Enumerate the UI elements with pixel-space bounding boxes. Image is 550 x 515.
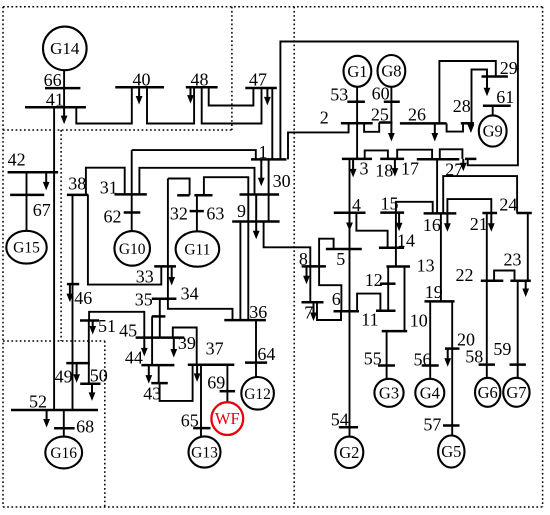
load arrow bus 39: [173, 338, 175, 351]
wire 41-52: [53, 107, 55, 410]
bus 46 bar: [67, 283, 79, 286]
bus 49 bar: [66, 362, 90, 365]
bus 11 bar: [376, 309, 396, 312]
bus 28 bar: [461, 122, 474, 125]
bus 31 bar: [115, 193, 147, 196]
wire 43-37: [160, 365, 193, 401]
svg-text:49: 49: [55, 367, 73, 387]
bus 21 bar: [482, 212, 497, 215]
bus 65 bar: [193, 427, 210, 430]
bus 55 bar: [378, 364, 395, 367]
wire G1-53-2-3: [356, 87, 358, 159]
svg-text:13: 13: [417, 256, 435, 276]
svg-text:G9: G9: [483, 122, 503, 141]
generator G12: [241, 377, 274, 410]
wire 51-50: [88, 321, 90, 384]
bus 52 bar: [11, 409, 98, 412]
wire 37-69-WF: [226, 365, 228, 403]
wire 16-21: [447, 199, 491, 213]
wire 2-25: [364, 123, 379, 132]
svg-text:62: 62: [104, 207, 122, 227]
area G16 boundary horizontal: [3, 340, 105, 342]
load arrow bus 8: [306, 266, 308, 277]
area G16 boundary vertical: [104, 341, 106, 507]
bus 29 bar: [482, 75, 508, 78]
svg-text:38: 38: [68, 174, 86, 194]
wire G8-60-25: [390, 87, 392, 123]
wire 48-47 upper: [209, 87, 254, 105]
svg-text:1: 1: [259, 142, 268, 162]
wire 9-36: [239, 222, 241, 321]
svg-text:14: 14: [397, 231, 415, 251]
wire 44-43: [158, 365, 160, 383]
bus 56 bar: [422, 364, 439, 367]
wire 13-10: [404, 267, 406, 332]
load arrow bus 44: [148, 365, 150, 377]
load arrow bus 47: [266, 88, 268, 98]
generator G4: [415, 379, 444, 407]
bus 67 bar: [10, 194, 44, 197]
bus 63 transformer tick: [190, 210, 204, 213]
svg-text:24: 24: [499, 195, 517, 215]
wire 27 load jog: [440, 149, 463, 159]
svg-text:31: 31: [100, 178, 118, 198]
wire 19-20-57-G5: [451, 301, 453, 435]
svg-text:36: 36: [249, 302, 267, 322]
bus 35-34 bar: [152, 298, 177, 301]
svg-text:G14: G14: [50, 39, 80, 58]
wire 48-47 lower: [202, 87, 262, 123]
svg-text:41: 41: [46, 90, 64, 110]
wire 23-59-G7: [517, 281, 519, 378]
wire 47-1: [271, 88, 273, 159]
svg-text:59: 59: [493, 339, 511, 359]
svg-text:17: 17: [401, 159, 419, 179]
bus 53 bar: [347, 101, 365, 104]
bus 63 bar: [194, 194, 212, 197]
bus 10 bar: [382, 330, 408, 333]
bus 18 bar: [380, 158, 404, 161]
svg-text:64: 64: [257, 344, 275, 364]
bus 50 bar: [80, 383, 100, 386]
area separator vertical: [293, 7, 295, 507]
svg-text:15: 15: [381, 194, 399, 214]
load arrow bus 30: [255, 195, 257, 233]
svg-text:28: 28: [453, 96, 471, 116]
wire 63-G11: [196, 195, 198, 231]
bus 45-39 bar: [136, 336, 185, 339]
bus 26 bar: [400, 122, 447, 125]
wire 26-28: [447, 123, 463, 131]
svg-text:67: 67: [33, 200, 51, 220]
svg-text:55: 55: [364, 349, 382, 369]
svg-text:45: 45: [119, 321, 137, 341]
load arrow bus 45: [143, 338, 145, 350]
svg-text:32: 32: [170, 204, 188, 224]
svg-text:8: 8: [299, 249, 308, 269]
wire 26-29: [439, 61, 495, 123]
bus 8 bar: [302, 265, 326, 268]
wire 37-65-G13: [200, 365, 202, 437]
svg-text:2: 2: [320, 108, 329, 128]
bus 15 bar: [380, 211, 404, 214]
svg-text:39: 39: [178, 333, 196, 353]
generator G7: [503, 378, 529, 407]
load arrow bus 21: [490, 213, 492, 225]
bus 41 bar: [25, 106, 86, 109]
bus 12 bar: [380, 282, 396, 285]
svg-text:69: 69: [207, 373, 225, 393]
svg-text:65: 65: [181, 411, 199, 431]
wire 31-1: [132, 150, 256, 159]
wire 22-23: [494, 271, 514, 281]
load arrow bus 29: [486, 77, 488, 90]
generator G5: [438, 435, 464, 467]
bus 2 bar: [341, 122, 373, 125]
svg-text:6: 6: [332, 289, 341, 309]
generator G8: [378, 55, 406, 87]
svg-text:25: 25: [371, 105, 389, 125]
bus 22 bar: [481, 279, 504, 282]
bus 17 bar: [417, 158, 460, 161]
svg-text:WF: WF: [215, 409, 240, 428]
wire 45-44: [151, 316, 153, 365]
bus 68 bar: [54, 427, 75, 430]
wire 13-12-11: [387, 267, 389, 311]
svg-text:46: 46: [74, 288, 92, 308]
bus 20 bar: [445, 347, 460, 350]
svg-text:G4: G4: [420, 383, 440, 402]
area G14 boundary vertical: [231, 7, 233, 130]
svg-text:30: 30: [273, 171, 291, 191]
generator G15: [6, 231, 46, 264]
svg-text:G10: G10: [119, 241, 146, 258]
load arrow bus 18: [394, 159, 396, 170]
load arrow bus 26: [434, 123, 436, 134]
generator G3: [374, 379, 403, 407]
svg-text:61: 61: [496, 87, 514, 107]
wire 19-56-G4: [429, 301, 431, 379]
svg-text:26: 26: [408, 105, 426, 125]
load arrow bus 28: [470, 123, 472, 126]
svg-text:44: 44: [125, 348, 143, 368]
wind farm WF: [211, 402, 243, 435]
load arrow bus 7: [313, 302, 315, 314]
wire 40-48: [147, 87, 194, 123]
wire 4-14: [356, 213, 387, 248]
wire 6-11: [357, 294, 380, 312]
svg-text:51: 51: [98, 316, 116, 336]
svg-text:22: 22: [456, 265, 474, 285]
wire 24-23: [527, 213, 529, 281]
wire 36-64-G12: [255, 320, 257, 377]
svg-text:42: 42: [8, 150, 26, 170]
load arrow bus 50: [91, 384, 93, 394]
bus 27 bar: [465, 158, 476, 161]
bus 54 bar: [339, 426, 358, 429]
svg-text:3: 3: [360, 159, 369, 179]
wire 35-45: [159, 299, 161, 338]
wire 21-22-58-G6: [486, 213, 488, 378]
bus 14 bar: [379, 246, 404, 249]
bus 19 bar: [425, 300, 455, 303]
svg-text:G3: G3: [379, 383, 399, 402]
svg-text:4: 4: [352, 195, 361, 215]
bus 30 bar: [240, 193, 280, 196]
svg-text:5: 5: [336, 249, 345, 269]
bus 62 bar: [124, 211, 141, 214]
wire 5-6: [319, 239, 341, 312]
generator G1: [344, 56, 372, 87]
svg-text:34: 34: [181, 284, 199, 304]
svg-text:G11: G11: [184, 242, 210, 259]
bus 1 bar: [251, 158, 287, 161]
wire 17-16: [436, 159, 438, 213]
generator G6: [475, 378, 500, 407]
wire 61-G9: [492, 106, 494, 116]
svg-text:52: 52: [29, 392, 47, 412]
wire 18-17: [397, 150, 432, 160]
load arrow bus 49: [76, 363, 78, 376]
wire 31-62-G10: [131, 150, 133, 230]
bus 61 bar: [483, 104, 511, 107]
area G15 boundary vertical: [60, 130, 62, 341]
bus 32 bar: [177, 194, 189, 197]
wire 16-19: [440, 213, 442, 301]
svg-text:43: 43: [143, 384, 161, 404]
svg-text:57: 57: [423, 415, 441, 435]
wire 32 link: [168, 179, 190, 196]
wire 38-31: [86, 168, 125, 195]
wire 1-2: [288, 123, 349, 159]
bus 44 bar: [141, 364, 174, 367]
wire 28-29: [472, 70, 488, 124]
wire 3-4-5-54-G2: [349, 159, 351, 437]
svg-text:G1: G1: [347, 62, 367, 81]
bus 25 bar: [379, 121, 392, 124]
svg-text:23: 23: [504, 250, 522, 270]
svg-text:35: 35: [135, 290, 153, 310]
load arrow bus 23: [525, 281, 527, 290]
wire 16-24: [443, 176, 517, 213]
bus 3 bar: [342, 158, 372, 161]
load arrow bus 27: [462, 159, 464, 164]
bus 16 bar: [424, 212, 457, 215]
generator G14: [43, 27, 87, 71]
svg-text:48: 48: [191, 70, 209, 90]
svg-text:G5: G5: [441, 442, 461, 461]
bus 47 bar: [245, 87, 276, 90]
wire 52-68-G16: [63, 410, 65, 437]
wire 39-37: [173, 328, 197, 365]
bus 6 bar: [334, 310, 360, 313]
bus 60 bar: [384, 101, 400, 104]
svg-text:19: 19: [425, 282, 443, 302]
svg-text:G15: G15: [13, 240, 40, 257]
svg-text:56: 56: [414, 350, 432, 370]
svg-text:10: 10: [410, 311, 428, 331]
svg-text:9: 9: [237, 201, 246, 221]
svg-text:40: 40: [133, 70, 151, 90]
bus 45 upper tick: [152, 315, 166, 318]
wire 3-18: [365, 150, 388, 159]
bus 40 bar: [115, 86, 164, 89]
wire 15-16: [396, 202, 433, 214]
load arrow bus 40: [138, 87, 140, 97]
load arrow bus 20: [447, 349, 449, 360]
border left: [2, 7, 4, 507]
wire 41-40: [76, 87, 132, 123]
load arrow bus 25: [390, 123, 392, 135]
wire 38-33: [88, 195, 161, 285]
load arrow bus 33: [171, 266, 173, 278]
load arrow bus 3: [352, 159, 354, 171]
svg-text:12: 12: [365, 270, 383, 290]
bus 42 bar: [8, 171, 59, 174]
load arrow bus 48: [190, 87, 192, 96]
wire 31-30: [139, 168, 254, 195]
bus 37 bar: [188, 364, 235, 367]
svg-text:G7: G7: [506, 383, 526, 402]
wire 7-6: [317, 302, 341, 320]
wire G14-66-41: [63, 70, 65, 107]
bus 58 bar: [479, 363, 495, 366]
border top: [3, 6, 543, 8]
svg-text:29: 29: [500, 58, 518, 78]
svg-text:G2: G2: [339, 443, 359, 462]
wire 63-9-36: [204, 177, 248, 320]
svg-text:G16: G16: [50, 445, 77, 462]
bus 48 bar: [186, 86, 218, 89]
load arrow bus 1: [260, 159, 262, 179]
bus 4 bar: [334, 211, 366, 214]
svg-text:60: 60: [372, 84, 390, 104]
bus 59 bar: [510, 363, 526, 366]
svg-text:54: 54: [331, 410, 349, 430]
wire 32-33-35 column: [168, 179, 233, 320]
load arrow bus 52: [46, 410, 48, 421]
svg-text:21: 21: [470, 214, 488, 234]
wire 10-55-G3: [386, 331, 388, 379]
wire 15-14-13: [395, 213, 397, 267]
generator G10: [114, 231, 150, 266]
wire 38-46-49-52: [72, 195, 74, 410]
bus 57 bar: [443, 424, 460, 427]
bus 36 bar: [224, 319, 266, 322]
svg-text:63: 63: [206, 204, 224, 224]
border right: [542, 7, 544, 507]
svg-text:7: 7: [304, 303, 313, 323]
bus 13 bar: [386, 265, 410, 268]
svg-text:11: 11: [361, 310, 378, 330]
generator G2: [335, 437, 363, 468]
border bottom: [3, 506, 543, 508]
bus 9 bar: [232, 220, 279, 223]
svg-text:53: 53: [330, 85, 348, 105]
svg-text:G6: G6: [478, 383, 498, 402]
svg-text:16: 16: [423, 215, 441, 235]
load arrow bus 15: [398, 213, 400, 225]
bus 23 bar: [510, 279, 530, 282]
bus 38 bar: [67, 194, 89, 197]
svg-text:27: 27: [445, 160, 463, 180]
generator G13: [189, 436, 221, 467]
generator G9: [479, 115, 507, 146]
bus 7 bar: [302, 301, 324, 304]
svg-text:47: 47: [249, 70, 267, 90]
load arrow bus 41: [63, 107, 65, 117]
load arrow bus 42: [45, 172, 47, 183]
load arrow bus 51: [92, 321, 94, 328]
svg-text:58: 58: [465, 347, 483, 367]
svg-text:50: 50: [90, 366, 108, 386]
bus 69 bar: [220, 390, 236, 393]
svg-text:G12: G12: [244, 386, 271, 403]
bus 66 bar: [45, 87, 80, 90]
bus 43 bar: [151, 382, 168, 385]
wire 1-27: [280, 42, 518, 166]
load arrow bus 46: [69, 284, 71, 295]
wire 1-30-9: [268, 159, 270, 221]
generator G16: [45, 437, 82, 469]
wire 42-67-G15: [26, 172, 28, 231]
bus 33 bar: [154, 265, 176, 268]
svg-text:37: 37: [206, 339, 224, 359]
svg-text:33: 33: [136, 267, 154, 287]
load arrow bus 37: [196, 365, 198, 375]
bus 5 bar: [326, 248, 362, 251]
wire 9-8-7: [264, 222, 311, 303]
bus 24 bar: [517, 212, 532, 215]
load arrow bus 4: [349, 213, 351, 224]
bus 64 bar: [245, 361, 267, 364]
wire 51-45: [89, 312, 144, 338]
svg-text:G8: G8: [381, 61, 401, 80]
svg-text:66: 66: [44, 70, 62, 90]
generator G11: [176, 231, 220, 266]
bus 51 bar: [80, 319, 99, 322]
svg-text:18: 18: [375, 161, 393, 181]
area G14 boundary horizontal: [3, 129, 232, 131]
svg-text:68: 68: [76, 417, 94, 437]
load arrow bus 16: [446, 213, 448, 224]
svg-text:G13: G13: [191, 445, 218, 462]
